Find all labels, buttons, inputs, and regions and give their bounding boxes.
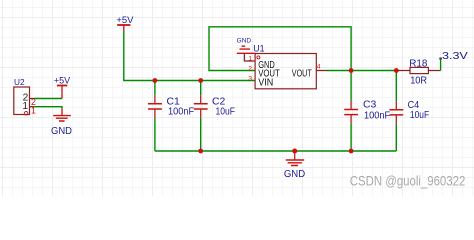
svg-text:U1: U1 [253, 43, 264, 53]
svg-text:1: 1 [22, 101, 28, 112]
regulator U1 [244, 43, 326, 89]
wire C4 branch [395, 71, 397, 102]
wire U2 pin1 to GND [34, 107, 62, 109]
svg-text:GND: GND [284, 169, 305, 180]
svg-text:100nF: 100nF [364, 109, 390, 121]
svg-text:10uF: 10uF [216, 105, 236, 117]
svg-text:GND: GND [51, 126, 72, 137]
svg-text:2: 2 [248, 65, 252, 72]
wire C2 branch [200, 81, 202, 96]
wire output row [327, 70, 400, 72]
ground GND bottom rail [284, 151, 305, 180]
wire VOUT bridge (pin2 over U1 to output) [209, 27, 351, 71]
svg-text:100nF: 100nF [168, 105, 194, 117]
wire +5V to VIN rail [124, 31, 255, 81]
svg-text:VIN: VIN [258, 78, 273, 89]
svg-text:1: 1 [248, 55, 252, 62]
svg-text:3: 3 [248, 75, 252, 82]
svg-text:GND: GND [237, 38, 252, 45]
svg-text:4: 4 [317, 63, 321, 70]
svg-text:R18: R18 [409, 58, 427, 70]
connector U2 [14, 77, 36, 116]
wire U2 pin2 to +5V [34, 98, 62, 100]
power +5V at U2 [54, 76, 70, 99]
capacitor C4 [389, 99, 429, 124]
svg-text:VOUT: VOUT [292, 69, 312, 80]
junction node dots [153, 68, 399, 153]
ground GND above U1 [237, 38, 255, 54]
wire C1 branch [154, 81, 156, 96]
node 3.3V [439, 50, 468, 71]
wire C3 branch [350, 71, 352, 101]
svg-text:10uF: 10uF [410, 109, 429, 121]
wire ground rail [155, 150, 396, 152]
resistor R18 [396, 58, 440, 87]
capacitor C1 [148, 95, 194, 118]
capacitor C3 [344, 98, 390, 123]
ground GND at U2 [51, 108, 72, 137]
capacitor C2 [194, 95, 235, 118]
svg-text:3.3V: 3.3V [442, 50, 468, 62]
svg-text:+5V: +5V [54, 76, 70, 86]
power +5V top [116, 15, 134, 31]
svg-text:10R: 10R [410, 74, 427, 86]
svg-text:CSDN @guoli_960322: CSDN @guoli_960322 [350, 174, 466, 189]
svg-text:U2: U2 [14, 77, 25, 87]
